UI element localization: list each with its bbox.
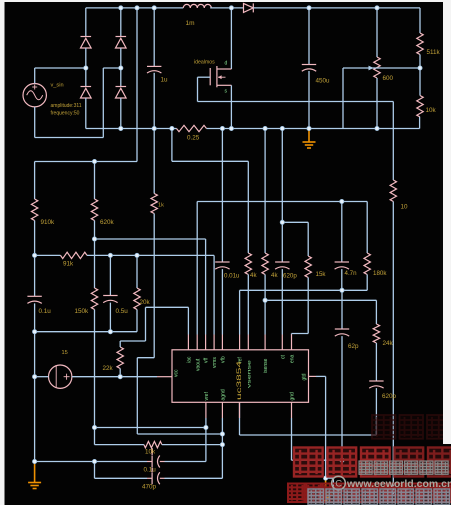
wire 620p bottom lead <box>375 388 377 435</box>
junction <box>33 459 37 463</box>
transistor idealmos <box>210 66 231 87</box>
label 1k <box>158 203 164 209</box>
resistor 150k <box>91 288 97 310</box>
resistor 91k <box>61 252 88 258</box>
resistor 910k <box>31 199 37 221</box>
label 4k second <box>271 272 278 279</box>
svg-text:1u: 1u <box>161 77 169 84</box>
pin stub gtdrv <box>309 375 317 377</box>
junction <box>152 126 156 130</box>
label d pin <box>225 61 228 67</box>
wire analog gnd line y331 <box>35 331 137 333</box>
white page border right <box>443 0 451 444</box>
pin label vcc <box>174 369 180 377</box>
capacitor 1u <box>147 66 161 73</box>
label 511k <box>427 49 441 56</box>
wire 910k bottom lead <box>34 221 36 256</box>
resistor 1k <box>151 194 157 214</box>
svg-text:10k: 10k <box>145 449 156 456</box>
label 4.7n <box>345 270 358 277</box>
wire bottom right jog horizontal <box>326 477 334 479</box>
wire 4.7n bottom lead <box>341 269 343 290</box>
wire 10k bottom <box>419 117 421 129</box>
label amplitude <box>51 103 82 109</box>
junction <box>307 6 311 10</box>
wire gate long horizontal <box>198 101 394 103</box>
junction <box>119 66 123 70</box>
pin label vaout <box>195 358 201 371</box>
wire y461 gnd line right <box>165 461 206 463</box>
wire gtdrv horizontal <box>316 375 326 377</box>
svg-text:150k: 150k <box>75 308 90 315</box>
svg-text:620p: 620p <box>283 273 297 280</box>
resistor 10 gate <box>390 180 396 202</box>
ground analog <box>28 462 41 489</box>
junction <box>280 126 284 130</box>
junction <box>340 288 344 292</box>
svg-text:C: C <box>335 479 342 490</box>
label s pin <box>225 89 228 95</box>
svg-text:511k: 511k <box>427 49 441 56</box>
wire 10k line left <box>95 444 144 446</box>
svg-text:180k: 180k <box>373 270 387 277</box>
label 0.01u <box>224 273 240 280</box>
wire 620p row top lead <box>281 129 283 263</box>
diode D_out <box>244 3 254 12</box>
wire bridge right column top <box>120 8 122 37</box>
wire v15 right <box>72 376 157 378</box>
wire 15k top lead <box>307 222 309 256</box>
svg-text:15k: 15k <box>316 271 327 278</box>
wire pin222 vertical <box>221 418 223 478</box>
resistor 24k <box>373 324 379 343</box>
label 470p <box>142 484 157 491</box>
wire gnd pin line y460 <box>292 459 343 461</box>
capacitor 620p row <box>275 262 289 269</box>
label 62p <box>348 343 359 350</box>
wire y478 line right <box>165 477 223 479</box>
svg-text:vsense: vsense <box>247 359 252 388</box>
wire 4k2 bottom lead <box>264 275 266 335</box>
junction <box>324 476 328 480</box>
wire bridge right column bottom <box>120 98 122 129</box>
capacitor link lead <box>151 448 153 472</box>
svg-text:idealmos: idealmos <box>194 60 215 66</box>
svg-text:isense: isense <box>263 358 269 373</box>
wire bottom right jog vertical <box>332 478 334 495</box>
label v_sin name <box>51 83 64 89</box>
svg-text:d: d <box>225 61 228 67</box>
white page border top <box>0 0 451 2</box>
wire 62p bottom lead <box>341 336 343 460</box>
wire gnd column mid <box>34 303 36 461</box>
svg-text:vrms: vrms <box>212 357 218 368</box>
wire 4.7n top lead <box>341 202 343 263</box>
pin label vrms <box>212 357 218 368</box>
label 91k <box>63 261 74 268</box>
wire 180k bottom lead <box>366 275 368 291</box>
junction <box>220 443 224 447</box>
wire 4k1 top lead <box>247 161 249 253</box>
wire 22k top lead <box>119 341 121 347</box>
wire 511k top <box>419 8 421 33</box>
pin label agnd bottom <box>221 389 227 400</box>
capacitor 450u <box>302 65 316 72</box>
pin label ct <box>280 355 286 360</box>
wire 450u bottom <box>308 71 310 129</box>
wire source bottom horizontal <box>35 137 104 139</box>
label 0.1u bottom <box>144 467 157 474</box>
svg-text:4k: 4k <box>250 272 257 279</box>
label 450u <box>316 78 331 85</box>
watermark gray site name <box>359 461 448 474</box>
wire AC2 vertical <box>102 68 104 138</box>
capacitor 4.7n <box>335 262 349 269</box>
potentiometer wiper arrow <box>369 66 374 71</box>
diode D2 <box>81 87 92 99</box>
wire y222 line <box>282 221 308 223</box>
wire y427 line <box>95 427 206 429</box>
junction <box>108 330 112 334</box>
wire gate vertical <box>197 77 199 101</box>
junction <box>33 330 37 334</box>
wire 620p row bottom lead <box>281 269 283 334</box>
junction <box>92 425 96 429</box>
wire pin ena drop <box>291 334 293 335</box>
wire gtdrv vertical <box>325 376 327 478</box>
svg-text:0.1u: 0.1u <box>39 308 52 315</box>
svg-text:amplitude:311: amplitude:311 <box>51 103 82 109</box>
resistor 511k <box>417 33 423 55</box>
svg-text:ct: ct <box>280 355 286 360</box>
wire 0.5u bottom lead <box>109 303 111 332</box>
wire y300 line <box>265 299 376 301</box>
label 22k <box>103 365 114 372</box>
wire AC2 horizontal <box>103 67 121 69</box>
svg-text:910k: 910k <box>41 219 56 226</box>
wire vff line y239 <box>95 238 206 240</box>
wire 15k bottom lead <box>307 278 309 334</box>
label 20k <box>140 299 151 306</box>
svg-text:20k: 20k <box>140 299 151 306</box>
wire divider middle <box>419 55 421 96</box>
wire x145 vertical <box>145 307 147 341</box>
pin label gnd bottom <box>290 392 296 401</box>
label frequency <box>51 111 80 117</box>
potentiometer 600 <box>374 57 380 78</box>
label 620k <box>100 219 115 226</box>
label 620p row <box>283 273 297 280</box>
wire pot bottom <box>376 78 378 129</box>
label 910k <box>41 219 56 226</box>
wire y290 line <box>240 289 368 291</box>
svg-text:450u: 450u <box>316 78 331 85</box>
junction <box>152 6 156 10</box>
wire wiper drop <box>342 68 344 129</box>
svg-text:22k: 22k <box>103 365 114 372</box>
wire bridge right column middle <box>120 48 122 87</box>
junction <box>220 126 224 130</box>
junction <box>118 375 122 379</box>
wire 450u top <box>308 8 310 65</box>
svg-text:vref: vref <box>204 392 210 401</box>
svg-text:frequency:50: frequency:50 <box>51 111 80 117</box>
wire y201 line <box>197 201 367 203</box>
wire 15k jog <box>292 333 309 335</box>
wire y435 line <box>240 434 377 436</box>
ground gate drive <box>319 478 332 500</box>
wire y307 line <box>146 306 189 308</box>
wire 24k bottom lead <box>375 343 377 381</box>
pins top stubs <box>188 335 291 350</box>
wire 150k bottom long <box>94 310 96 445</box>
op-amp U1 uc3854 box <box>172 350 309 403</box>
wire 0.1u top lead <box>34 255 36 296</box>
resistor 4k second <box>262 253 268 275</box>
junction <box>263 126 267 130</box>
wire 910k top lead <box>34 162 36 200</box>
label 4k first <box>250 272 257 279</box>
resistor 22k <box>117 347 123 369</box>
label 600 <box>383 75 394 82</box>
svg-text:agnd: agnd <box>221 389 227 400</box>
junction <box>92 237 96 241</box>
junction <box>92 459 96 463</box>
watermark url row <box>332 476 451 490</box>
pin stub vcc <box>157 376 172 378</box>
watermark row1 red characters <box>294 448 451 477</box>
junction <box>340 199 344 203</box>
junction <box>307 126 311 130</box>
wire pin206 vertical <box>205 418 207 462</box>
label 10 <box>401 204 409 211</box>
svg-text:91k: 91k <box>63 261 74 268</box>
resistor 0.25 shunt <box>177 125 207 131</box>
pin label gtd <box>301 373 307 380</box>
wire 22k top horizontal <box>120 340 145 342</box>
svg-text:iac: iac <box>187 356 193 363</box>
capacitor 0.01u <box>215 262 229 269</box>
junction <box>263 298 267 302</box>
wire 0.01u bottom lead <box>221 269 223 334</box>
source v_sin <box>23 84 46 107</box>
diode D4 <box>116 87 127 99</box>
junction <box>119 6 123 10</box>
wire bridge left column bottom <box>85 98 87 129</box>
svg-text:0.5u: 0.5u <box>116 308 129 315</box>
wire y161 jog <box>172 160 248 162</box>
wire vin sense vertical <box>136 8 138 162</box>
capacitor 0.1u bottom <box>147 456 165 468</box>
svg-text:10: 10 <box>401 204 409 211</box>
wire 150k top lead <box>94 239 96 288</box>
pin label iac <box>187 356 193 363</box>
wire 0.5u top lead <box>109 255 111 295</box>
svg-text:v_sin: v_sin <box>51 83 64 89</box>
wire pin292 vertical <box>291 418 293 460</box>
wire 0.01u top lead <box>221 129 223 263</box>
wire y255 right <box>87 254 214 256</box>
junction <box>375 126 379 130</box>
svg-text:470p: 470p <box>142 484 157 491</box>
wire 62p top lead <box>341 290 343 329</box>
wire source bottom vertical <box>34 107 36 138</box>
wire 24k top lead <box>375 300 377 324</box>
wire 10k line right <box>162 444 223 446</box>
junction <box>170 126 174 130</box>
junction <box>135 253 139 257</box>
wire 620k bottom lead <box>94 221 96 240</box>
pins bottom stubs <box>206 402 292 418</box>
junction <box>280 220 284 224</box>
wire top rail middle segment <box>210 7 243 9</box>
capacitor 620p right <box>369 381 383 388</box>
svg-text:0.25: 0.25 <box>187 135 200 142</box>
wire y434 line <box>137 433 222 435</box>
resistor 620k <box>91 199 97 221</box>
label idealmos <box>194 60 215 66</box>
wire top rail left segment <box>86 7 183 9</box>
wire drain vertical <box>230 8 232 69</box>
wire vff top line <box>35 161 137 163</box>
label 15k <box>316 271 327 278</box>
wire x137 down to 433 <box>136 358 138 434</box>
capacitor 0.5u <box>103 296 117 303</box>
junction <box>418 66 422 70</box>
label 1m value <box>186 20 195 27</box>
wire pin vrms drop <box>213 255 215 334</box>
capacitor 470p <box>147 472 165 484</box>
wire gate stub <box>198 76 211 78</box>
wire y255 left <box>35 254 61 256</box>
wire bridge left column top <box>85 8 87 37</box>
pin label ena <box>290 354 296 363</box>
svg-text:620p: 620p <box>382 393 397 400</box>
pin label ref <box>238 357 244 363</box>
wire source top vertical <box>34 68 36 84</box>
inductor 1m <box>183 4 211 7</box>
watermark row3 dark red characters <box>288 484 451 503</box>
resistor 10k feedback <box>417 96 423 118</box>
junction <box>229 126 233 130</box>
label 10k feedback <box>426 107 437 114</box>
junction <box>204 425 208 429</box>
wire 4k1 bottom lead <box>247 275 249 335</box>
junction <box>229 6 233 10</box>
wire bottom rail right <box>207 128 420 130</box>
source v15 <box>49 365 72 388</box>
label 1u <box>161 77 169 84</box>
junction <box>340 458 344 462</box>
wire top rail right segment <box>253 7 420 9</box>
label 150k <box>75 308 90 315</box>
wire 20k bottom lead <box>136 310 138 332</box>
svg-text:gtd: gtd <box>301 373 307 380</box>
pin label vsense <box>247 359 252 388</box>
wire bridge left column middle <box>85 48 87 87</box>
svg-text:ena: ena <box>290 354 296 363</box>
svg-text:vfb: vfb <box>221 356 227 363</box>
wire 1k top lead <box>153 129 155 194</box>
label 0.1u left <box>39 308 52 315</box>
wire pin vaout drop <box>196 202 198 335</box>
junction <box>135 6 139 10</box>
wire 620k top lead <box>94 162 96 200</box>
resistor 20k <box>134 288 140 310</box>
label 10k bottom <box>145 449 156 456</box>
part number uc3854 <box>236 360 243 400</box>
label 15 <box>62 350 68 356</box>
wire x94 down <box>94 462 96 479</box>
svg-text:15: 15 <box>62 350 68 356</box>
pin label isense <box>263 358 269 373</box>
wire x171 drop <box>171 129 173 162</box>
resistor 180k <box>364 253 370 275</box>
wire pin vff drop <box>205 239 207 335</box>
svg-text:www.eeworld.com.cn: www.eeworld.com.cn <box>346 478 451 490</box>
junction <box>33 253 37 257</box>
wire bottom right horizontal <box>333 494 393 496</box>
label 180k <box>373 270 387 277</box>
label 0.5u <box>116 308 129 315</box>
wire v15 left <box>35 376 49 378</box>
svg-text:vaout: vaout <box>195 358 201 371</box>
svg-text:vcc: vcc <box>174 369 180 377</box>
junction <box>92 159 96 163</box>
svg-text:1m: 1m <box>186 20 195 27</box>
pin label vref bottom <box>204 392 210 401</box>
junction <box>33 375 37 379</box>
ground main rail <box>303 129 316 149</box>
resistor 10k bottom <box>144 441 162 447</box>
junction <box>375 6 379 10</box>
svg-text:620k: 620k <box>100 219 115 226</box>
wire pot top <box>376 8 378 57</box>
wire y461 gnd line left <box>35 461 147 463</box>
svg-text:gnd: gnd <box>290 392 296 401</box>
resistor 4k first <box>245 253 251 275</box>
wire 4k2 top lead <box>264 129 266 254</box>
wire pin ref drop <box>239 290 241 334</box>
wire 20k top lead <box>136 255 138 288</box>
wire jog left at 357 <box>137 357 154 359</box>
resistor 15k <box>305 256 311 278</box>
junction <box>119 126 123 130</box>
wire pin comp drop <box>239 402 241 435</box>
svg-text:4.7n: 4.7n <box>345 270 358 277</box>
junction <box>108 253 112 257</box>
wire 1k bottom long <box>153 214 155 358</box>
label 24k <box>383 340 394 347</box>
watermark bottom blue-gray characters <box>308 489 450 505</box>
wire 22k bottom <box>119 369 121 377</box>
svg-text:0.01u: 0.01u <box>224 273 240 280</box>
svg-text:1k: 1k <box>158 203 164 209</box>
wire gate drop lower <box>392 202 394 496</box>
label 0.25 <box>187 135 200 142</box>
wire pin iac drop <box>187 307 189 334</box>
wire bottom rail left <box>86 128 177 130</box>
wire AC1 horizontal <box>35 67 86 69</box>
capacitor 0.1u left <box>27 296 41 303</box>
svg-text:600: 600 <box>383 75 394 82</box>
svg-text:24k: 24k <box>383 340 394 347</box>
svg-text:10k: 10k <box>426 107 437 114</box>
wire wiper line <box>343 67 420 69</box>
wire y478 line left <box>95 477 148 479</box>
wire source to rail <box>230 85 232 128</box>
svg-text:vff: vff <box>204 357 210 363</box>
